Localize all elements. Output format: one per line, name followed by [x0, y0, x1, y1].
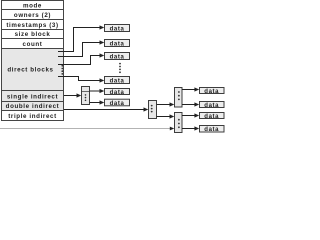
svg-text:double indirect: double indirect: [6, 103, 60, 110]
wire C to data r2: [182, 104, 195, 106]
arrow to data r4: [194, 126, 199, 130]
svg-text:data: data: [110, 101, 125, 107]
svg-text:data: data: [110, 78, 125, 84]
arrow triple into D: [170, 127, 175, 131]
arrow to data 6: [100, 100, 105, 104]
wire A to data 5: [90, 90, 101, 92]
data block r2: [200, 102, 225, 109]
inode table outline: [2, 1, 64, 121]
arrow to data 3: [100, 53, 105, 57]
row line owners/timestamps: [1, 19, 64, 21]
wire direct pointer 4: [58, 77, 100, 81]
arrow to data r1: [194, 87, 199, 91]
row line size/count: [1, 38, 64, 40]
row line direct/single: [1, 90, 64, 92]
arrow into indirect block B: [144, 107, 149, 111]
wire double indirect: [64, 109, 145, 111]
wire D to data r4: [182, 128, 195, 130]
svg-text:data: data: [110, 54, 125, 60]
arrow to data r2: [194, 102, 199, 106]
data block r4: [200, 126, 225, 134]
wire B to D: [157, 116, 171, 118]
arrow to data 5: [100, 89, 105, 93]
arrow to data r3: [194, 113, 199, 117]
svg-text:data: data: [204, 127, 219, 133]
svg-text:data: data: [110, 90, 125, 96]
wire C to data r1: [182, 89, 195, 91]
data block 1: [105, 25, 130, 33]
svg-text:data: data: [204, 103, 219, 109]
svg-text:size block: size block: [15, 31, 51, 38]
data block r3: [200, 113, 225, 120]
triple indirect long line: [0, 128, 171, 130]
row line single/double: [1, 101, 64, 103]
svg-text:direct blocks: direct blocks: [7, 66, 53, 73]
wire direct pointer 1: [58, 28, 100, 52]
data block 6: [105, 99, 130, 107]
svg-text:single indirect: single indirect: [7, 93, 58, 100]
svg-text:data: data: [204, 114, 219, 120]
wire D to data r3: [182, 115, 195, 117]
data block r1: [200, 88, 225, 95]
indirect block B: [149, 101, 157, 119]
data block 5: [105, 89, 130, 96]
double indirect cell: [2, 102, 63, 111]
row line mode/owners: [1, 9, 64, 11]
svg-text:data: data: [110, 41, 125, 47]
svg-text:data: data: [204, 89, 219, 95]
arrow to data 2: [100, 40, 105, 44]
arrow into C: [170, 102, 175, 106]
svg-text:timestamps (3): timestamps (3): [6, 22, 58, 29]
dots between data 3 and data 4: [119, 63, 121, 74]
data block 2: [105, 40, 130, 48]
arrow into indirect block A: [77, 93, 82, 97]
indirect block C: [175, 88, 183, 108]
row line double/triple: [1, 110, 64, 112]
arrow to data 4: [100, 78, 105, 82]
indirect block A: [82, 87, 90, 105]
svg-text:owners (2): owners (2): [14, 12, 51, 19]
wire A to data 6: [90, 102, 101, 104]
svg-text:data: data: [110, 26, 125, 32]
row line timestamps/size: [1, 29, 64, 31]
wire B to C: [157, 104, 171, 106]
row line count/direct: [1, 48, 64, 50]
svg-text:triple indirect: triple indirect: [8, 113, 57, 120]
single indirect cell: [2, 91, 63, 102]
dots in direct blocks cell: [61, 65, 63, 75]
arrow into D: [170, 114, 175, 118]
data block 3: [105, 53, 130, 61]
wire direct pointer 3: [58, 56, 100, 65]
data block 4: [105, 77, 130, 85]
svg-text:mode: mode: [23, 2, 42, 9]
direct blocks cell: [2, 49, 63, 91]
arrow to data 1: [100, 25, 105, 29]
wire single indirect: [64, 95, 78, 97]
wire direct pointer 2: [58, 43, 100, 57]
indirect block D: [175, 113, 183, 133]
svg-text:count: count: [23, 41, 43, 48]
